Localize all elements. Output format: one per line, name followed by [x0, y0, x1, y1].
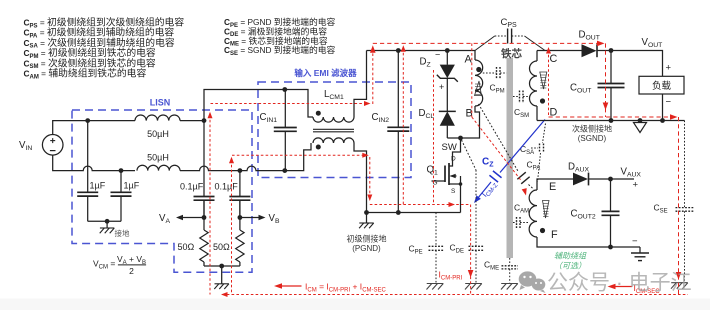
diode DOUT	[582, 44, 597, 57]
wire: bottom rail across with hops	[180, 143, 311, 171]
capacitor CAM parasitic	[513, 222, 517, 224]
capacitor CPA parasitic diagonal lead	[479, 104, 519, 172]
node VA	[202, 215, 207, 220]
LISN enclosure box	[72, 110, 252, 272]
capacitor CIN1	[284, 90, 286, 128]
svg-text:D: D	[451, 156, 456, 163]
red path: CPA diagonal	[472, 117, 522, 181]
svg-text:公众号 · 电子江: 公众号 · 电子江	[547, 272, 692, 295]
red path: lower LISN trace	[232, 154, 365, 156]
aux winding dot	[540, 228, 545, 233]
node: load bottom	[660, 118, 665, 123]
ground: measuring earth	[221, 266, 223, 284]
capacitor C1 1uF	[87, 121, 89, 193]
watermark wechat icon	[519, 271, 546, 293]
node: R join	[219, 264, 224, 269]
capacitor CPM parasitic	[483, 72, 497, 74]
node: CIN2 top	[396, 48, 401, 53]
ground: CPE earth	[427, 283, 444, 285]
svg-text:+: +	[439, 82, 444, 92]
node: SGND tap	[638, 118, 643, 123]
red arrow: ICM formula	[282, 285, 302, 287]
svg-text:F: F	[551, 229, 558, 241]
wire: CIN1 to choke top	[285, 90, 313, 118]
svg-text:初级侧接地: 初级侧接地	[347, 233, 387, 243]
resistor R1 50ohm	[203, 200, 205, 230]
wire: top rail to junction A-chain	[180, 120, 204, 122]
load box 负载	[639, 76, 684, 94]
choke dot bottom	[316, 145, 321, 150]
red path: top bus drop at VOUT	[605, 43, 607, 117]
bottom margin band	[0, 299, 710, 310]
wire: E rail	[537, 179, 573, 190]
choke dot top	[316, 111, 321, 116]
red path: PGND run	[370, 204, 471, 206]
svg-text:SW: SW	[442, 142, 457, 153]
red path: SGND run	[549, 116, 671, 118]
red path: primary A trace	[471, 43, 473, 117]
diode DCL clamp	[439, 110, 456, 112]
red path: clamp trace	[433, 70, 435, 205]
wire: choke top out riser	[354, 51, 367, 118]
capacitor COUT	[610, 51, 612, 84]
red path: bottom bus	[222, 294, 688, 296]
node: C1 tap on top rail	[85, 118, 90, 123]
secondary winding marker	[540, 72, 547, 89]
node VB	[238, 215, 243, 220]
red path: LISN chain B	[231, 160, 233, 295]
wire: VIN bottom rail with hops	[53, 155, 135, 171]
svg-text:0.1µF: 0.1µF	[180, 181, 204, 191]
node: COUT2 bottom	[608, 245, 613, 250]
aux winding marker	[543, 201, 550, 219]
ground: VAUX earth	[639, 247, 641, 253]
capacitor C4 0.1uF	[239, 196, 241, 198]
arrow VA	[180, 217, 205, 219]
secondary winding C-D	[530, 61, 537, 106]
aux winding E-F	[529, 190, 537, 237]
red path: top bus	[373, 42, 597, 44]
choke LCM1 bottom winding	[313, 138, 354, 143]
capacitor CSA parasitic	[543, 124, 546, 144]
capacitor CPS parasitic	[475, 36, 495, 51]
svg-text:−: −	[632, 236, 638, 247]
svg-text:2: 2	[129, 266, 134, 276]
capacitor CSE parasitic	[684, 121, 686, 208]
label ICMZ	[479, 179, 499, 200]
wire: C1-C2 join	[88, 220, 121, 222]
arrow VB	[240, 217, 262, 219]
ground: CSE earth	[671, 282, 688, 284]
svg-text:50Ω: 50Ω	[178, 242, 195, 252]
capacitor COUT2	[610, 179, 612, 211]
red path: EMI riser	[372, 48, 374, 104]
svg-text:E: E	[549, 181, 556, 193]
red path: CIN2 trace	[402, 48, 404, 205]
node: COUT top	[609, 48, 614, 53]
primary winding dot	[476, 67, 481, 72]
wire: top rail to A	[367, 51, 476, 61]
capacitor CPE parasitic	[435, 213, 437, 247]
wire: C riser	[536, 51, 538, 62]
diode DAUX	[573, 173, 588, 186]
svg-text:次级侧接地: 次级侧接地	[572, 123, 612, 133]
svg-text:（可选）: （可选）	[554, 262, 586, 271]
node: COUT bottom	[609, 118, 614, 123]
capacitor C2 1uF	[120, 171, 122, 193]
node: top rail to measuring chain	[202, 118, 207, 123]
wire: SW to CDE dotted	[462, 140, 477, 170]
node: C2 tap	[119, 168, 124, 173]
node: CIN1 bottom	[282, 168, 287, 173]
red path: PGND drop	[369, 157, 371, 198]
node: C1-C2 join	[105, 219, 110, 224]
ground: PGND	[366, 213, 368, 223]
ground: LISN earth	[106, 221, 108, 228]
svg-text:+: +	[633, 180, 639, 191]
wire: SW node	[447, 106, 479, 138]
svg-text:输入 EMI 滤波器: 输入 EMI 滤波器	[294, 68, 357, 78]
source VIN	[42, 135, 63, 156]
red path: secondary riser	[548, 50, 550, 117]
primary winding marker	[475, 81, 482, 96]
svg-text:接地: 接地	[115, 228, 130, 238]
transformer core bar	[507, 58, 514, 258]
red arrow: ICM-SEC label	[614, 286, 632, 288]
svg-text:LISN: LISN	[150, 98, 171, 108]
svg-text:铁芯: 铁芯	[501, 47, 522, 60]
wire: C to DOUT	[537, 50, 582, 52]
capacitor CZ blue	[500, 120, 545, 173]
node: clamp tap	[445, 48, 450, 53]
wire: choke bottom out to PGND rail	[354, 143, 367, 213]
svg-text:−: −	[435, 50, 440, 60]
svg-text:0.1µF: 0.1µF	[215, 181, 239, 191]
resistor R2 50ohm	[239, 200, 241, 230]
EMI filter enclosure box	[258, 82, 411, 178]
red path: LISN chain A	[209, 115, 211, 295]
wire: VIN top to rail	[53, 121, 135, 135]
svg-text:负载: 负载	[652, 80, 672, 92]
svg-text:(SGND): (SGND)	[578, 134, 607, 143]
wire: SGND bottom rail	[537, 120, 685, 122]
svg-text:1µF: 1µF	[124, 180, 140, 190]
node SW	[458, 136, 463, 141]
primary winding A-B	[475, 60, 483, 106]
node: PGND ground tap	[364, 210, 369, 215]
secondary winding dot	[540, 98, 545, 103]
wire: D drop	[536, 106, 538, 121]
choke LCM1 core	[313, 128, 354, 130]
capacitor CDE parasitic	[475, 170, 477, 246]
svg-text:CSE = SGND 到接地端的电容: CSE = SGND 到接地端的电容	[224, 44, 336, 57]
svg-text:50µH: 50µH	[147, 129, 169, 139]
capacitor CME parasitic	[509, 258, 511, 266]
wire: gate stub	[432, 180, 446, 182]
wire: chain A vertical	[203, 121, 205, 197]
svg-text:50Ω: 50Ω	[213, 242, 230, 252]
node: COUT2 top	[608, 177, 613, 182]
wire: DOUT to VOUT corner	[611, 51, 663, 77]
red path: ICM-PRI drop	[470, 205, 472, 295]
svg-text:CAM = 辅助绕组到铁芯的电容: CAM = 辅助绕组到铁芯的电容	[24, 67, 147, 81]
capacitor CSM parasitic	[513, 96, 520, 98]
wire: chain A top to CIN1	[204, 90, 285, 121]
wire: PGND rail	[367, 212, 461, 214]
wire: R1-R2 join	[204, 265, 240, 267]
svg-text:C: C	[550, 53, 558, 65]
ground: SGND triangle	[634, 123, 647, 133]
ground: CDE earth	[465, 283, 482, 285]
node: CIN1 top	[282, 87, 287, 92]
svg-text:S: S	[451, 188, 456, 195]
svg-text:50µH: 50µH	[147, 152, 169, 162]
svg-text:−: −	[666, 97, 672, 108]
red path: ICM-SEC drop	[678, 117, 680, 295]
svg-text:辅助绕组: 辅助绕组	[554, 252, 587, 261]
choke LCM1 top winding	[313, 117, 354, 122]
capacitor CIN2	[397, 51, 399, 128]
node: C4 tap	[238, 168, 243, 173]
transistor Q1 nmos	[449, 138, 461, 166]
ground: CME earth	[501, 283, 518, 285]
svg-text:1µF: 1µF	[90, 180, 106, 190]
diode DZ tvs	[446, 51, 448, 65]
red path: upper LISN trace	[211, 103, 367, 105]
capacitor C3 0.1uF	[203, 196, 205, 198]
inductor L2 50uH	[137, 165, 180, 170]
wire: F rail	[537, 237, 640, 247]
node: CIN2 bottom	[396, 210, 401, 215]
inductor L1 50uH	[135, 115, 180, 121]
svg-text:+: +	[666, 63, 672, 74]
wire: chain B vertical	[239, 171, 241, 197]
svg-text:(PGND): (PGND)	[352, 244, 381, 253]
